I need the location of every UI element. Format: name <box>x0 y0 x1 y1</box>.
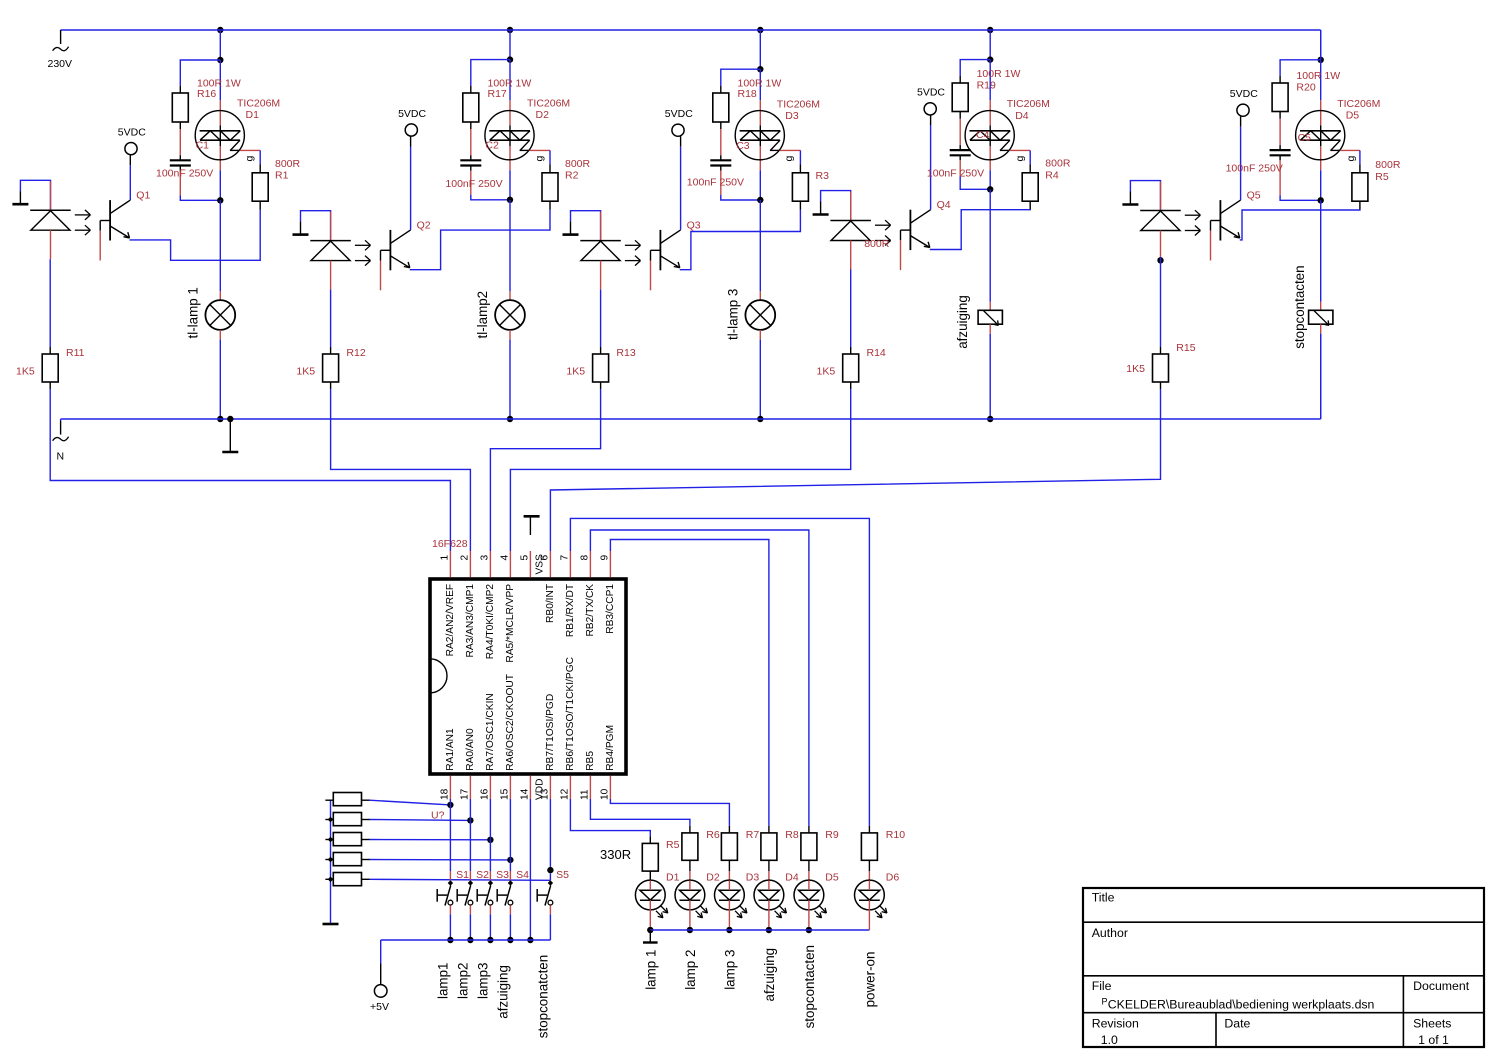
capacitor C3 100nF <box>710 159 731 161</box>
title block row lines <box>1083 921 1484 923</box>
svg-text:15: 15 <box>499 788 510 800</box>
LED D4 triangle and bar <box>759 890 780 900</box>
resistor R2 800R (gate) <box>542 173 558 201</box>
wire C4 to main junction <box>959 155 961 160</box>
junction ch4 triac MT1 node <box>987 186 993 192</box>
wire ch2 to lamp <box>509 200 511 291</box>
wire C5 to main junction <box>1279 155 1281 160</box>
svg-text:100nF 250V: 100nF 250V <box>927 167 984 179</box>
wire pin column x=470 to switch <box>469 799 471 820</box>
svg-text:RA6/OSC2/CKOOUT: RA6/OSC2/CKOOUT <box>505 674 516 771</box>
wire pin 7 to R10 <box>570 518 869 826</box>
resistor R3 800R (gate) <box>792 173 808 201</box>
ground (connector) <box>323 923 339 926</box>
svg-text:power-on: power-on <box>863 952 878 1008</box>
connector U? common rail <box>330 800 332 924</box>
junction ch1 triac MT1 node <box>217 197 223 203</box>
opto LED ch2 cathode bar <box>310 240 351 242</box>
wire pin 14 VDD to +5V rail <box>529 799 531 940</box>
wire opto ch4 to R14 <box>850 270 852 348</box>
switch S2 contact circle <box>468 900 473 905</box>
svg-text:16: 16 <box>479 788 490 800</box>
wire opto ch3 anode down <box>600 261 602 290</box>
svg-text:800R: 800R <box>1045 158 1071 170</box>
junction ch1 neutral bus <box>217 416 223 422</box>
connector U? box 2 <box>333 813 361 826</box>
wire ch3 snubber tap to R18 <box>721 69 761 86</box>
svg-text:lamp 1: lamp 1 <box>644 950 659 990</box>
wire lamp ch3 to neutral bus <box>759 330 761 340</box>
wire switch S3 to +5V rail <box>489 914 491 940</box>
svg-text:D3: D3 <box>746 871 760 883</box>
LED D6 emission arrows <box>880 906 887 913</box>
switch S3 top junction <box>488 880 493 885</box>
wire pin column x=450 to switch <box>449 799 451 805</box>
svg-text:RA7/OSC1/CKIN: RA7/OSC1/CKIN <box>485 693 496 771</box>
pin 2 stub (top) <box>469 551 471 578</box>
wire R8 to D4 <box>768 860 770 871</box>
resistor R17 100R 1W <box>463 93 479 122</box>
svg-text:1K5: 1K5 <box>1126 363 1145 375</box>
svg-text:S2: S2 <box>476 869 489 881</box>
junction ch2 230V bus <box>507 27 513 33</box>
svg-text:g: g <box>783 156 795 162</box>
svg-text:TIC206M: TIC206M <box>1007 98 1050 110</box>
wire pin 11 to R6 <box>590 799 690 826</box>
wire R15 to PIC pin 6 <box>550 389 1160 551</box>
wire neutral bus right corner up to ch5 <box>1320 334 1322 419</box>
resistor R16 100R 1W <box>172 93 188 122</box>
svg-text:afzuiging: afzuiging <box>762 948 777 1002</box>
svg-text:stopcontacten: stopcontacten <box>802 945 817 1028</box>
terminal 5VDC ch5 circle <box>1237 104 1249 116</box>
LED D3 emission arrows <box>740 906 747 913</box>
pin 3 stub (top) <box>489 551 491 578</box>
svg-text:afzuiging: afzuiging <box>955 295 970 349</box>
svg-text:D2: D2 <box>706 871 720 883</box>
wire opto ch2 anode down <box>330 261 332 290</box>
wire R9 to D5 <box>808 860 810 871</box>
transistor Q3 base stub <box>650 261 652 291</box>
svg-text:100nF 250V: 100nF 250V <box>687 177 744 189</box>
svg-text:5VDC: 5VDC <box>398 108 426 120</box>
switch S4 bottom stub <box>509 905 511 914</box>
svg-text:RB0/INT: RB0/INT <box>545 584 556 623</box>
svg-text:lamp 2: lamp 2 <box>683 950 698 990</box>
wire 230V phase bus <box>61 29 1321 31</box>
svg-text:RB2/TX/CK: RB2/TX/CK <box>585 584 596 637</box>
svg-text:RB5: RB5 <box>585 751 596 771</box>
svg-text:R2: R2 <box>565 170 579 182</box>
svg-text:8: 8 <box>579 555 590 561</box>
wire R19 to capacitor C4 <box>959 112 961 119</box>
wire opto ch1 to R11 <box>49 259 51 347</box>
lamp tl-lamp 1 circle <box>205 300 235 330</box>
wire R12 to PIC pin 2 <box>331 389 471 551</box>
svg-text:R7: R7 <box>746 829 760 841</box>
junction ch1 230V bus <box>217 27 223 33</box>
switch S4 fixed contact <box>496 889 498 902</box>
junction ch5 triac MT1 node <box>1318 197 1324 203</box>
triac D5 gate lead <box>1331 140 1341 150</box>
wire opto ch5 cathode to ground <box>1130 181 1160 211</box>
lamp tl-lamp 3 circle <box>745 300 775 330</box>
junction pin16 node <box>487 837 493 843</box>
svg-text:10: 10 <box>599 788 610 800</box>
transistor Q5 symbol <box>1219 200 1221 240</box>
svg-text:Title: Title <box>1092 891 1115 905</box>
capacitor C1 100nF <box>170 159 191 161</box>
svg-text:100R 1W: 100R 1W <box>1296 70 1340 82</box>
wire R17 to capacitor C2 <box>470 122 472 129</box>
wire ch3 main vertical (triac branch) <box>759 69 761 100</box>
svg-text:afzuiging: afzuiging <box>495 965 510 1019</box>
junction ch3 triac MT1 node <box>757 197 763 203</box>
svg-text:C4: C4 <box>976 129 990 141</box>
wire R10 to D6 <box>868 860 870 871</box>
transistor Q1 base stub <box>99 231 101 261</box>
wire pin column x=490 to switch <box>489 799 491 840</box>
junction pin14 +5V rail <box>527 937 533 943</box>
svg-text:4: 4 <box>499 555 510 561</box>
svg-text:3: 3 <box>479 555 490 561</box>
pin 13 stub (bottom) <box>549 776 551 800</box>
ground ch3 (opto) <box>570 222 572 235</box>
junction S3 +5V rail <box>487 937 493 943</box>
wire ch5 main vertical (triac branch) <box>1320 60 1322 101</box>
LED D6 circle <box>855 880 885 910</box>
triac D1 symbol <box>200 130 241 132</box>
junction S2 +5V rail <box>467 937 473 943</box>
wire ch2 main vertical top <box>509 30 511 60</box>
wire pin 8 to R9 <box>590 530 809 826</box>
terminal 230V <box>60 30 62 44</box>
svg-text:800R: 800R <box>1375 159 1401 171</box>
opto LED ch3 triangle <box>581 241 620 261</box>
junction ch4 snubber tap <box>987 56 993 62</box>
pin 5 stub (top) <box>529 551 531 578</box>
svg-text:TIC206M: TIC206M <box>237 98 280 110</box>
opto LED ch4 triangle <box>831 221 870 241</box>
triac D4 body circle <box>965 111 1014 160</box>
resistor R11 1K5 <box>42 354 58 382</box>
svg-text:RB1/RX/DT: RB1/RX/DT <box>565 584 576 637</box>
wire opto ch2 to R12 <box>330 290 332 347</box>
wire pin 13 to S5 <box>549 799 551 867</box>
switch S4 lever <box>505 885 511 905</box>
junction pin17 node <box>467 817 473 823</box>
svg-text:Date: Date <box>1224 1016 1250 1030</box>
svg-text:14: 14 <box>519 788 530 800</box>
switch S1 bottom stub <box>449 905 451 914</box>
pin 14 stub (bottom) <box>529 776 531 800</box>
svg-text:R5: R5 <box>1375 171 1389 183</box>
wire R18 to capacitor C3 <box>720 122 722 129</box>
ground VSS above pin 5 <box>524 515 540 518</box>
switch S2 top junction <box>468 880 473 885</box>
resistor R1 800R (gate) <box>252 173 268 201</box>
svg-text:5VDC: 5VDC <box>118 126 146 138</box>
switch S3 fixed contact <box>476 889 478 902</box>
wire opto ch4 anode down <box>850 241 852 270</box>
opto LED ch2 triangle <box>311 241 350 261</box>
wire ch1 main vertical (triac branch) <box>219 60 221 100</box>
wire neutral bus <box>61 418 1321 420</box>
junction pin15 node <box>507 857 513 863</box>
resistor R19 100R 1W <box>952 83 968 112</box>
wire switch S2 to +5V rail <box>469 914 471 940</box>
svg-text:R13: R13 <box>616 347 635 359</box>
LED D1 triangle and bar <box>640 890 661 900</box>
title block column lines <box>1402 976 1404 1047</box>
transistor Q4 base stub <box>900 240 902 270</box>
opto LED ch5 triangle <box>1141 211 1180 231</box>
svg-text:Q3: Q3 <box>687 219 701 231</box>
svg-text:100nF 250V: 100nF 250V <box>1226 163 1283 175</box>
svg-text:R19: R19 <box>977 79 996 91</box>
wire 5VDC ch3 to collector <box>680 136 682 146</box>
svg-text:D5: D5 <box>825 871 839 883</box>
svg-text:TIC206M: TIC206M <box>1337 98 1380 110</box>
wire C3 to main junction <box>720 166 722 171</box>
resistor R20 100R 1W <box>1272 83 1288 112</box>
LED D3 cathode wire <box>728 880 730 890</box>
svg-text:D6: D6 <box>886 871 900 883</box>
wire ch3 to lamp <box>759 200 761 291</box>
connector U? box 1 <box>333 793 361 806</box>
wire lamp ch2 to neutral bus <box>509 330 511 340</box>
wire ch3 main vertical top <box>759 30 761 69</box>
pin 4 stub (top) <box>509 551 511 578</box>
wire +5V rail <box>381 939 551 941</box>
svg-text:TIC206M: TIC206M <box>777 98 820 110</box>
junction D2 cathode rail <box>687 927 693 933</box>
triac D4 symbol <box>970 130 1011 132</box>
wire ch2 snubber tap to R17 <box>471 60 510 86</box>
svg-text:RA2/AN2/VREF: RA2/AN2/VREF <box>445 584 456 656</box>
svg-text:Revision: Revision <box>1092 1016 1139 1030</box>
triac D2 body circle <box>485 111 534 160</box>
resistor R12 1K5 <box>323 354 339 382</box>
LED D6 triangle and bar <box>859 890 880 900</box>
svg-text:D2: D2 <box>536 109 550 121</box>
resistor R5 330R <box>642 843 658 871</box>
wire R13 to PIC pin 3 <box>490 389 600 551</box>
switch S3 lever <box>485 885 491 905</box>
relay coil afzuiging <box>978 310 1002 324</box>
pin 17 stub (bottom) <box>469 776 471 800</box>
LED D2 circle <box>675 880 705 910</box>
svg-text:RB7/T1OSI/PGD: RB7/T1OSI/PGD <box>545 694 556 771</box>
connector U? box 4 <box>333 853 361 866</box>
wire ch4 gate to R4 <box>1010 149 1030 151</box>
svg-text:R20: R20 <box>1296 82 1315 94</box>
svg-text:Sheets: Sheets <box>1413 1016 1451 1030</box>
switch S1 fixed contact <box>436 889 438 902</box>
switch S1 lever <box>445 885 451 905</box>
LED D5 cathode wire <box>808 880 810 890</box>
svg-text:R14: R14 <box>867 347 886 359</box>
LED D6 cathode wire <box>868 880 870 890</box>
triac D5 body circle <box>1296 111 1345 160</box>
pin 11 stub (bottom) <box>589 776 591 800</box>
resistor R13 1K5 <box>593 354 609 382</box>
junction connector rail 2 <box>328 817 334 823</box>
svg-text:R10: R10 <box>886 829 905 841</box>
wire ch1 main vertical top <box>219 30 221 60</box>
pin 8 stub (top) <box>589 551 591 578</box>
switch S4 top junction <box>508 880 513 885</box>
connector U? box 3 <box>333 833 361 846</box>
svg-text:R9: R9 <box>825 829 839 841</box>
svg-text:lamp2: lamp2 <box>455 963 470 999</box>
svg-text:R6: R6 <box>706 829 720 841</box>
LED D2 emission arrows <box>701 906 708 913</box>
triac D3 body circle <box>735 111 784 160</box>
wire Q5 emitter to R5 <box>1240 210 1360 240</box>
svg-text:Q1: Q1 <box>136 190 150 202</box>
lamp tl-lamp 3 cross <box>750 305 771 326</box>
terminal 5VDC ch1 circle <box>125 143 137 155</box>
opto LED ch5 cathode bar <box>1140 210 1181 212</box>
LED D5 circle <box>794 880 824 910</box>
wire opto ch4 cathode to ground <box>821 191 851 221</box>
triac D3 symbol <box>740 130 781 132</box>
LED D2 cathode wire <box>689 880 691 890</box>
LED D1 circle <box>635 880 665 910</box>
junction ch1 snubber tap <box>217 57 223 63</box>
svg-text:g: g <box>1345 156 1357 162</box>
svg-text:1 of 1: 1 of 1 <box>1418 1033 1449 1047</box>
svg-text:R15: R15 <box>1176 342 1195 354</box>
svg-text:R8: R8 <box>785 829 799 841</box>
resistor R14 1K5 <box>843 354 859 382</box>
transistor Q5 base stub <box>1210 231 1212 261</box>
opto LED ch2 light arrows <box>355 244 371 246</box>
LED D4 cathode wire <box>768 880 770 890</box>
wire ch4 to relay coil <box>989 189 991 301</box>
svg-text:tl-lamp 1: tl-lamp 1 <box>186 287 201 338</box>
svg-text:18: 18 <box>439 788 450 800</box>
svg-text:N: N <box>57 451 65 463</box>
svg-text:R12: R12 <box>346 347 365 359</box>
pin 1 stub (top) <box>449 551 451 578</box>
svg-text:VDD: VDD <box>534 778 545 800</box>
triac D2 gate lead <box>520 140 530 150</box>
svg-text:D3: D3 <box>785 110 799 122</box>
svg-text:800R: 800R <box>864 238 890 250</box>
wire switch S4 to +5V rail <box>509 914 511 940</box>
svg-text:g: g <box>534 156 546 162</box>
transistor Q3 symbol <box>659 230 661 270</box>
svg-text:R1: R1 <box>275 170 289 182</box>
switch S5 contact circle <box>548 900 553 905</box>
junction ch3 230V bus <box>757 27 763 33</box>
svg-text:2: 2 <box>459 555 470 561</box>
svg-text:S5: S5 <box>556 869 569 881</box>
LED D4 emission arrows <box>780 906 787 913</box>
svg-text:stopcontacten: stopcontacten <box>1292 265 1307 348</box>
IC U1 PIC 16F628 body <box>430 579 626 774</box>
wire Q3 emitter to R3 <box>680 210 801 270</box>
wire R14 to PIC pin 4 <box>510 389 850 551</box>
wire 5VDC ch2 to collector <box>410 136 412 146</box>
svg-text:g: g <box>244 156 256 162</box>
resistor R15 1K5 <box>1153 354 1169 382</box>
terminal +5V <box>380 940 382 964</box>
pin 15 stub (bottom) <box>509 776 511 800</box>
switch S2 lever <box>465 885 471 905</box>
svg-text:Document: Document <box>1413 979 1470 993</box>
wire ch2 gate to R2 <box>530 149 550 151</box>
svg-text:230V: 230V <box>48 58 73 70</box>
svg-text:Q4: Q4 <box>937 199 951 211</box>
svg-text:100nF 250V: 100nF 250V <box>445 178 502 190</box>
ground ch5 (opto) <box>1129 192 1131 205</box>
wire ch3 gate to R3 <box>780 149 800 151</box>
triac D2 symbol <box>489 130 530 132</box>
svg-text:tl-lamp 3: tl-lamp 3 <box>726 289 741 340</box>
svg-text:Author: Author <box>1092 926 1128 940</box>
wire 5VDC ch1 to collector <box>129 155 131 165</box>
svg-text:tl-lamp2: tl-lamp2 <box>475 291 490 339</box>
wire R11 to PIC pin 1 <box>50 389 450 551</box>
wire 5VDC ch4 to collector <box>930 115 932 125</box>
wire Q2 emitter to R2 <box>410 210 550 270</box>
wire opto ch3 cathode to ground <box>571 211 601 241</box>
wire C1 to main junction <box>179 166 181 171</box>
resistor R10 330R <box>861 833 877 860</box>
wire connector box5 to switch rail <box>362 878 370 880</box>
wire connector box4 to pin 15 <box>362 859 370 861</box>
wire lamp ch1 to neutral bus <box>219 330 221 340</box>
ground ch2 (opto) <box>300 222 302 235</box>
junction ch5 snubber tap <box>1318 57 1324 63</box>
triac D1 body circle <box>195 111 244 160</box>
opto LED ch3 cathode bar <box>580 240 621 242</box>
junction S1 +5V rail <box>447 937 453 943</box>
wire ch5 gate to R5 <box>1340 149 1360 151</box>
IC U1 notch <box>430 659 447 693</box>
wire ch2 main vertical (triac branch) <box>509 60 511 101</box>
svg-text:12: 12 <box>559 788 570 800</box>
junction pin18 node <box>447 802 453 808</box>
svg-text:stopconatcten: stopconatcten <box>535 955 550 1038</box>
wire 5VDC ch5 to collector <box>1240 116 1242 126</box>
resistor R8 330R <box>761 833 777 860</box>
wire pin 10 to R7 <box>610 799 729 826</box>
junction ch2 snubber tap <box>507 56 513 62</box>
ground ch4 (opto) <box>820 202 822 215</box>
svg-text:5: 5 <box>519 555 530 561</box>
LED D2 triangle and bar <box>680 890 701 900</box>
svg-text:RA0/AN0: RA0/AN0 <box>465 728 476 771</box>
opto LED ch4 cathode bar <box>830 220 871 222</box>
junction D1 cathode rail <box>647 927 653 933</box>
svg-text:CKELDER\Bureaublad\bediening w: CKELDER\Bureaublad\bediening werkplaats.… <box>1108 998 1375 1012</box>
svg-text:7: 7 <box>559 555 570 561</box>
resistor R18 100R 1W <box>713 93 729 122</box>
lamp tl-lamp2 cross <box>500 305 521 326</box>
pin 10 stub (bottom) <box>609 776 611 800</box>
junction ch3 neutral bus <box>757 416 763 422</box>
wire R16 to capacitor C1 <box>179 122 181 129</box>
switch S5 fixed contact <box>536 889 538 902</box>
junction D4 cathode rail <box>766 927 772 933</box>
pin 18 stub (bottom) <box>449 776 451 800</box>
svg-text:lamp1: lamp1 <box>435 963 450 999</box>
wire R20 to capacitor C5 <box>1279 112 1281 119</box>
